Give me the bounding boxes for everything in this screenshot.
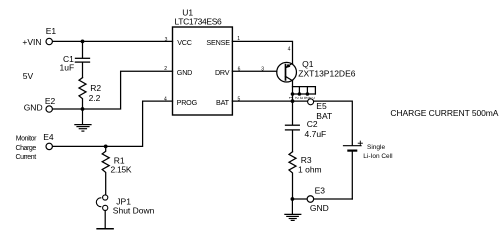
ground below E3 junction (285, 199, 301, 220)
capacitor C1 (75, 58, 89, 77)
jumper JP1 (96, 195, 113, 229)
svg-text:Current: Current (16, 154, 37, 161)
node GND label (24, 103, 43, 113)
svg-text:GND: GND (177, 68, 192, 77)
node +VIN label (22, 37, 41, 47)
resistor R2 (79, 78, 86, 109)
svg-text:1 ohm: 1 ohm (298, 165, 322, 175)
svg-text:1uF: 1uF (60, 62, 75, 72)
IC U1 box (173, 27, 233, 115)
wire SENSE to Q1 emitter (232, 41, 292, 63)
battery plus sign (358, 141, 362, 145)
svg-text:SENSE: SENSE (206, 38, 230, 47)
svg-text:PROG: PROG (177, 98, 198, 107)
wire E4 to PROG pin (52, 101, 172, 146)
junction dot BAT/C2 (291, 99, 295, 103)
svg-text:E5: E5 (316, 101, 327, 111)
svg-text:ZXT13P12DE6: ZXT13P12DE6 (298, 68, 355, 78)
svg-text:E2: E2 (45, 96, 56, 106)
wire E1 to VCC pin (52, 40, 172, 42)
node CHARGE CURRENT label (390, 108, 498, 118)
junction dot at E2/R2/gnd (81, 107, 85, 111)
svg-text:4: 4 (288, 47, 291, 53)
svg-text:GND: GND (24, 103, 43, 113)
svg-text:Charge: Charge (16, 145, 37, 152)
svg-text:GND: GND (310, 203, 329, 213)
svg-text:C2: C2 (307, 119, 318, 129)
svg-text:Shut Down: Shut Down (113, 206, 155, 216)
svg-text:VCC: VCC (177, 38, 192, 47)
battery Single Li-Ion Cell (344, 146, 362, 199)
terminal E2 (46, 106, 52, 112)
svg-text:R2: R2 (90, 83, 101, 93)
pin number 3 at Q1 base (261, 67, 264, 73)
svg-text:BAT: BAT (216, 98, 230, 107)
svg-text:2.15K: 2.15K (111, 164, 132, 174)
svg-text:2: 2 (295, 97, 300, 100)
svg-text:R3: R3 (301, 155, 312, 165)
wire DRV to Q1 base (232, 70, 276, 72)
svg-text:5V: 5V (23, 71, 34, 81)
resistor R3 (289, 152, 296, 199)
terminal E4 (46, 143, 52, 149)
svg-text:2.2: 2.2 (89, 93, 101, 103)
IC U1 pin names (177, 38, 231, 107)
terminal E4 label (43, 132, 54, 142)
wire Q1 collector (292, 81, 294, 101)
resistor R1 (102, 146, 109, 195)
svg-text:+VIN: +VIN (22, 37, 41, 47)
wire E2 to GND pin (52, 71, 172, 109)
transistor Q1 (277, 62, 297, 82)
comb pin numbers (288, 97, 315, 100)
svg-text:2: 2 (164, 66, 167, 72)
ground below E2 junction (75, 109, 91, 131)
junction dot R3/gnd (291, 197, 295, 201)
capacitor C2 (286, 101, 300, 152)
wire bottom E3 net (292, 198, 352, 200)
wire C1 top lead (82, 41, 84, 57)
svg-text:E1: E1 (46, 26, 57, 36)
svg-text:DRV: DRV (215, 68, 230, 77)
IC U1 labels (175, 8, 223, 27)
svg-text:Li-Ion Cell: Li-Ion Cell (363, 153, 393, 160)
junction dot at R1 top (104, 145, 108, 149)
svg-text:4: 4 (164, 96, 167, 102)
terminal E1 label (46, 26, 57, 36)
pin number 4 at Q1 emitter (288, 47, 291, 53)
node 5V label (23, 71, 34, 81)
terminal E5 (308, 99, 314, 105)
svg-text:3: 3 (261, 67, 264, 73)
svg-text:E4: E4 (43, 132, 54, 142)
IC U1 pin numbers (164, 36, 241, 102)
svg-text:4.7uF: 4.7uF (305, 129, 327, 139)
terminal E3 (307, 196, 314, 203)
Q1 collector pins comb (293, 87, 316, 94)
svg-text:BAT: BAT (316, 111, 332, 121)
svg-text:Single: Single (367, 144, 385, 151)
terminal E1 (46, 38, 52, 44)
junction dots on comb (291, 92, 295, 96)
svg-text:LTC1734ES6: LTC1734ES6 (175, 17, 223, 27)
node Monitor Charge Current labels (16, 135, 38, 161)
svg-text:E3: E3 (315, 186, 326, 196)
svg-text:CHARGE CURRENT 500mA: CHARGE CURRENT 500mA (390, 108, 498, 118)
junction dot at VIN/C1 (81, 40, 85, 44)
svg-text:Monitor: Monitor (16, 135, 37, 142)
svg-text:3: 3 (165, 37, 168, 43)
wire BAT net (232, 101, 352, 145)
svg-text:Q1: Q1 (302, 59, 314, 69)
terminal E2 label (45, 96, 56, 106)
